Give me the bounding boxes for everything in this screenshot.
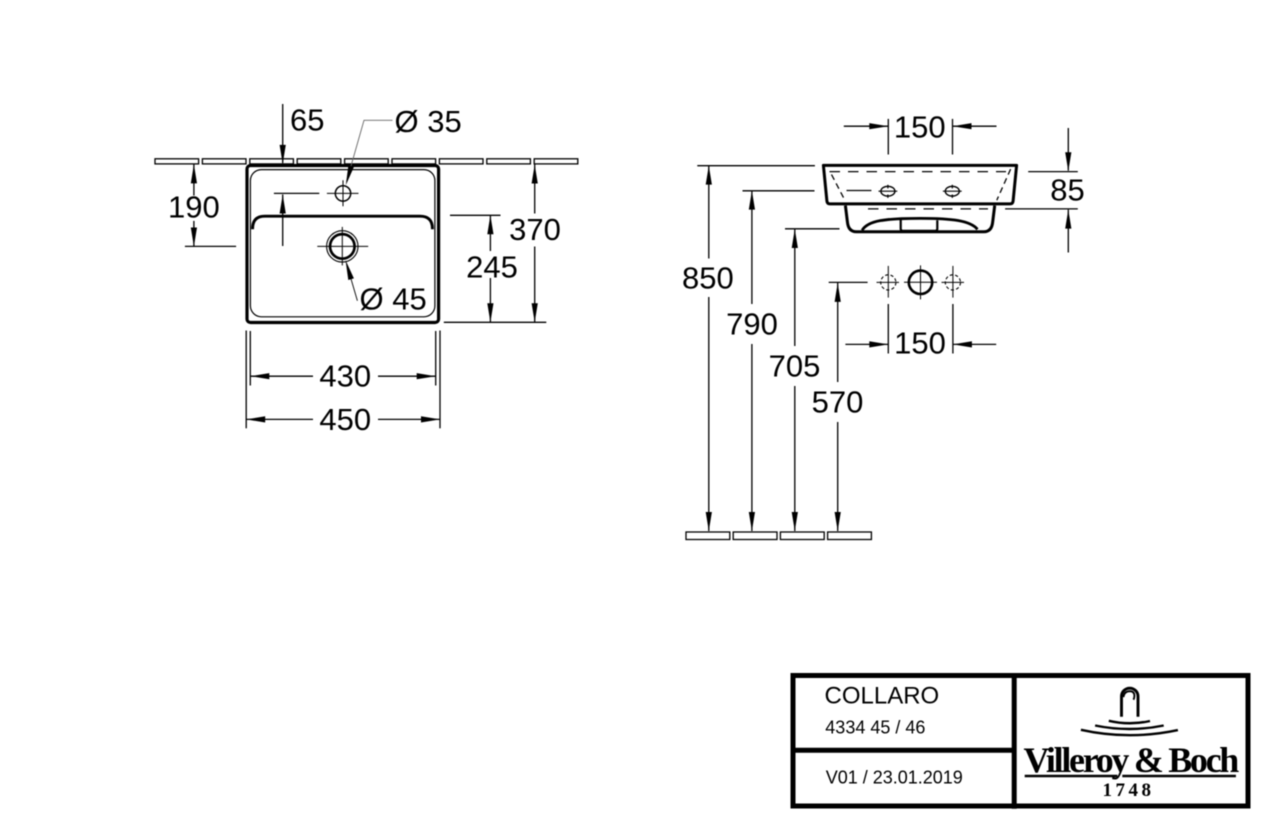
- overflow notch: [901, 220, 938, 231]
- dimension 705: [785, 228, 840, 230]
- dimension 245: [489, 215, 491, 251]
- svg-text:570: 570: [812, 384, 864, 419]
- svg-text:Ø 35: Ø 35: [395, 104, 462, 139]
- dimension 790: [743, 190, 815, 192]
- hidden rim dashed line: [830, 171, 1007, 173]
- svg-text:65: 65: [290, 103, 324, 138]
- siphon hidden dashed line: [868, 208, 988, 210]
- wall hatch line (top view): [155, 159, 578, 164]
- hidden bowl slant left: [832, 175, 846, 201]
- basin inner rim line: [250, 170, 435, 317]
- tap hole, diam 35: [335, 186, 350, 201]
- svg-text:Ø 45: Ø 45: [360, 282, 427, 317]
- svg-text:V01 / 23.01.2019: V01 / 23.01.2019: [826, 767, 963, 787]
- overflow dome arc: [862, 218, 977, 230]
- wall template: drain outlet circle: [909, 271, 932, 294]
- hidden bowl slant right: [997, 169, 1011, 200]
- svg-text:190: 190: [168, 189, 220, 224]
- dimension 150 bottom (wall template): [887, 304, 889, 354]
- svg-text:150: 150: [894, 325, 946, 360]
- basin body outline (front view): [823, 165, 1016, 204]
- logo underline: [1025, 775, 1118, 778]
- floor hatch line: [686, 532, 871, 540]
- basin outer rim (top view): [247, 166, 439, 323]
- dimension 65 (tap hole offset): [282, 104, 284, 163]
- dimension 370: [534, 165, 536, 214]
- svg-text:COLLARO: COLLARO: [825, 683, 940, 710]
- drain hole, diam 45: [327, 231, 358, 262]
- svg-text:245: 245: [466, 249, 518, 284]
- logo faucet echo arc: [1123, 691, 1134, 700]
- svg-text:790: 790: [726, 307, 778, 342]
- svg-text:370: 370: [509, 212, 561, 247]
- dimension 570: [829, 281, 868, 283]
- dimension 85: [1028, 171, 1078, 173]
- svg-text:705: 705: [769, 349, 821, 384]
- fixing hole right (front view): [945, 186, 959, 196]
- svg-text:450: 450: [319, 402, 371, 437]
- title block horizontal divider: [791, 748, 1015, 753]
- logo faucet arch: [1122, 688, 1139, 717]
- wall template: fixing hole left: [881, 275, 896, 290]
- svg-text:430: 430: [319, 358, 371, 393]
- title block outer border: [793, 676, 1248, 807]
- dimension 450: [245, 331, 247, 429]
- svg-text:85: 85: [1050, 173, 1084, 208]
- svg-text:Villeroy & Boch: Villeroy & Boch: [1024, 740, 1240, 780]
- wall template: fixing hole right: [945, 275, 960, 290]
- dimension 850: [697, 165, 815, 167]
- svg-text:150: 150: [894, 110, 946, 145]
- logo ripple arc 3: [1081, 730, 1178, 735]
- svg-text:4334 45 / 46: 4334 45 / 46: [825, 717, 925, 737]
- svg-text:850: 850: [682, 260, 734, 295]
- dimension 190: [193, 164, 195, 195]
- svg-text:1748: 1748: [1103, 780, 1155, 801]
- logo ripple arc 1: [1109, 721, 1150, 723]
- bowl top edge: [253, 216, 433, 229]
- siphon cover outline: [845, 206, 994, 232]
- dimension 150 top (fixing holes): [887, 119, 889, 155]
- title block vertical divider: [1012, 673, 1017, 809]
- dimension 430: [249, 331, 251, 386]
- logo ripple arc 2: [1095, 726, 1164, 730]
- fixing hole left (front view): [881, 186, 895, 196]
